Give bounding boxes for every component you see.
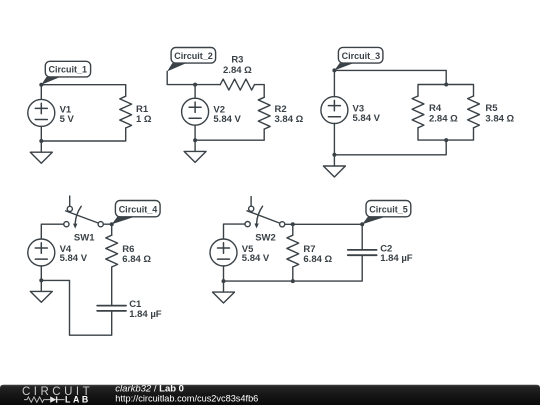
wire V2 bottom: [194, 125, 196, 140]
node V4 bottom junction: [39, 278, 43, 282]
svg-text:1.84 µF: 1.84 µF: [129, 309, 162, 320]
wire switch top stub: [250, 197, 252, 207]
voltage source V4: [28, 239, 55, 266]
wire switch common to R6: [103, 224, 111, 235]
callout Circuit_5: [362, 201, 411, 225]
wire top: node to rail: [334, 70, 446, 84]
wire R3 right to R2: [255, 85, 265, 98]
label R7 value: [303, 244, 332, 265]
label V2 value: [213, 105, 241, 125]
node C2 top corner: [360, 222, 364, 226]
capacitor C1: [97, 306, 126, 311]
wire bottom run: [224, 256, 363, 281]
ground (circuit 4): [30, 280, 52, 302]
node V2 bottom junction: [193, 138, 197, 142]
callout Circuit_1: [41, 61, 90, 84]
svg-text:5.84 V: 5.84 V: [353, 113, 381, 124]
svg-text:Circuit_2: Circuit_2: [174, 51, 213, 61]
svg-text:LAB: LAB: [65, 395, 91, 405]
resistor R4: [412, 96, 424, 128]
wire R2 bottom: [195, 129, 264, 140]
callout Circuit_2: [167, 48, 215, 72]
svg-text:Circuit_5: Circuit_5: [369, 204, 408, 214]
svg-text:6.84 Ω: 6.84 Ω: [303, 254, 332, 265]
wire R6 to C1: [111, 267, 113, 305]
node R7 top junction: [291, 222, 295, 226]
ground (circuit 2): [184, 140, 206, 162]
node R6 top junction: [110, 222, 114, 226]
resistor R6: [106, 235, 118, 267]
label V4 value: [60, 244, 88, 264]
ground (circuit 3): [323, 155, 345, 177]
callout Circuit_4: [112, 201, 160, 225]
svg-text:5.84 V: 5.84 V: [60, 253, 88, 264]
svg-text:2.84 Ω: 2.84 Ω: [223, 65, 252, 76]
label C1 value: [129, 299, 162, 320]
logo emblem: resistor zigzag: [24, 397, 47, 402]
svg-text:Circuit_4: Circuit_4: [119, 204, 158, 214]
label R3 value: [223, 55, 252, 76]
wire V3 top: [333, 70, 335, 97]
node V3 bottom junction: [332, 153, 336, 157]
wire V4 to switch left: [41, 224, 64, 239]
wire top C1: node to R1 top: [41, 85, 125, 97]
wire R7 bottom lead: [292, 267, 294, 281]
svg-text:R3: R3: [231, 55, 243, 66]
node R7 bottom junction: [291, 279, 295, 283]
node top-left (Circuit_3): [332, 68, 336, 72]
resistor R1: [120, 96, 132, 128]
label C2 value: [380, 243, 413, 264]
node rail top junction: [444, 83, 448, 87]
wire switch common to R7: [285, 223, 293, 225]
label V3 value: [353, 104, 381, 125]
wire bottom C1: [41, 128, 125, 141]
wire V4 bottom to ground node: [40, 266, 42, 280]
wire V1 top: [40, 85, 42, 100]
ground (circuit 5): [213, 281, 235, 303]
svg-text:http://circuitlab.com/cus2vc83: http://circuitlab.com/cus2vc83s4fb6: [115, 393, 258, 403]
capacitor C2: [348, 250, 377, 255]
label R4 value: [429, 103, 458, 124]
wire from callout to V2 top: [167, 71, 195, 84]
resistor R3 (horizontal): [220, 79, 254, 90]
svg-text:5 V: 5 V: [60, 114, 75, 125]
wire V5 to switch left: [224, 224, 246, 239]
wire V3 bottom: [333, 123, 335, 155]
node A (Circuit_1 top junction): [39, 83, 43, 87]
svg-text:Circuit_1: Circuit_1: [49, 65, 88, 75]
callout Circuit_3: [334, 47, 383, 70]
label V1 value: [60, 105, 75, 125]
wire R7 junction to C2: [293, 224, 362, 249]
svg-text:2.84 Ω: 2.84 Ω: [429, 113, 458, 124]
switch SW1: [64, 206, 103, 228]
wire V2 top: [195, 85, 220, 99]
switch SW2: [245, 206, 285, 228]
svg-text:6.84 Ω: 6.84 Ω: [122, 254, 151, 265]
resistor R5: [468, 96, 480, 128]
node rail bottom junction: [444, 138, 448, 142]
wire switch top stub: [69, 196, 71, 206]
svg-text:3.84 Ω: 3.84 Ω: [485, 113, 514, 124]
logo emblem: diode: [47, 396, 65, 402]
wire V1 bottom: [40, 126, 42, 141]
ground (circuit 1): [30, 141, 52, 163]
svg-text:5.84 V: 5.84 V: [213, 114, 241, 125]
resistor R2: [258, 97, 270, 129]
node B (Circuit_1 bottom junction): [39, 139, 43, 143]
svg-text:SW1: SW1: [74, 233, 95, 244]
wire R7 top lead: [292, 224, 294, 235]
wire rail top R4-R5: [418, 85, 474, 97]
wire rail to bottom: [334, 140, 446, 155]
wire rail bottom R4-R5: [418, 128, 474, 140]
label R6 value: [122, 244, 151, 265]
voltage source V3: [321, 97, 348, 124]
voltage source V5: [210, 239, 237, 266]
label R5 value: [485, 103, 514, 124]
label R2 value: [275, 104, 304, 125]
svg-text:Circuit_3: Circuit_3: [342, 51, 381, 61]
wire bottom run to C1: [41, 280, 111, 335]
label R1 value: [136, 104, 152, 125]
svg-text:5.84 V: 5.84 V: [242, 253, 270, 264]
voltage source V2: [182, 98, 209, 125]
label V5 value: [242, 244, 270, 264]
node V2 top junction: [193, 83, 197, 87]
node V5 bottom junction: [222, 279, 226, 283]
svg-text:1.84 µF: 1.84 µF: [380, 253, 413, 264]
svg-text:SW2: SW2: [255, 232, 276, 243]
wire V5 bottom: [223, 266, 225, 281]
svg-text:1 Ω: 1 Ω: [136, 114, 152, 125]
svg-text:3.84 Ω: 3.84 Ω: [275, 114, 304, 125]
resistor R7: [287, 235, 299, 267]
voltage source V1: [28, 99, 55, 126]
